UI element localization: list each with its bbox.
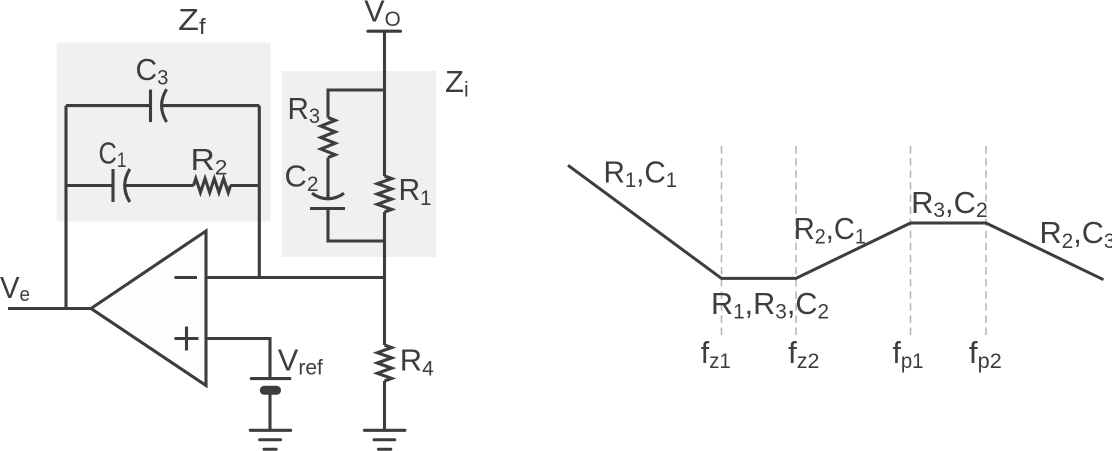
wire top of R3 branch <box>328 90 385 118</box>
ground (below Vref) <box>250 430 290 449</box>
op-amp U1 <box>91 231 206 386</box>
resistor R3 <box>321 118 335 158</box>
Zi shaded region <box>282 71 436 257</box>
svg-text:R4: R4 <box>400 343 434 381</box>
dashed line fp2 <box>985 146 987 340</box>
svg-text:fz2: fz2 <box>788 335 820 373</box>
wire noninverting input to Vref <box>206 339 270 379</box>
op-amp plus sign <box>175 327 199 351</box>
wire inverting input to VO node <box>206 276 385 279</box>
svg-text:R3,C2: R3,C2 <box>911 185 988 222</box>
gain curve <box>568 165 1104 279</box>
wire VO down to R1 <box>383 31 386 176</box>
dashed line fz1 <box>721 146 723 340</box>
Zf shaded region <box>57 43 271 222</box>
svg-text:fp2: fp2 <box>969 335 1002 373</box>
svg-text:Ve: Ve <box>0 270 30 306</box>
svg-text:fp1: fp1 <box>893 335 924 373</box>
wire R1 to R4 (through inverting node) <box>383 212 386 345</box>
wire battery to ground <box>268 390 271 430</box>
wire Zf top branch right <box>163 104 260 107</box>
ground (below R4) <box>365 430 405 449</box>
op-amp minus sign <box>175 276 198 279</box>
svg-text:R1,R3,C2: R1,R3,C2 <box>711 286 829 324</box>
svg-text:fz1: fz1 <box>701 335 731 373</box>
wire Zf top branch left <box>66 104 151 107</box>
wire C2 to bottom of branch <box>328 209 385 242</box>
resistor R1 <box>377 176 391 212</box>
svg-text:R1,C1: R1,C1 <box>604 154 678 192</box>
node VO terminal bar <box>368 30 401 33</box>
svg-text:R2,C1: R2,C1 <box>794 211 866 249</box>
wire Zf bottom branch left <box>66 184 113 187</box>
capacitor C1 <box>113 169 130 202</box>
wire R4 to ground <box>383 381 386 430</box>
svg-text:R2,C3: R2,C3 <box>1040 215 1112 253</box>
wire R3 to C2 <box>326 158 329 199</box>
wire Ve output lead <box>8 307 91 310</box>
dashed line fp1 <box>910 146 912 340</box>
battery Vref bottom plate <box>260 386 281 395</box>
resistor R4 <box>377 345 391 381</box>
wire Zf left edge <box>64 106 67 309</box>
svg-text:Vref: Vref <box>278 343 323 380</box>
resistor R2 <box>194 179 231 193</box>
wire R2 to Zf right edge <box>230 184 259 187</box>
wire Zf right edge down to inverting input <box>258 106 261 278</box>
dashed line fz2 <box>795 146 797 340</box>
svg-text:Zf: Zf <box>178 2 206 39</box>
capacitor C2 <box>310 193 345 208</box>
capacitor C3 <box>151 89 167 122</box>
svg-text:Zi: Zi <box>445 64 469 101</box>
svg-text:VO: VO <box>364 0 401 31</box>
battery Vref top plate <box>251 377 289 380</box>
wire C1 to R2 <box>124 184 194 187</box>
